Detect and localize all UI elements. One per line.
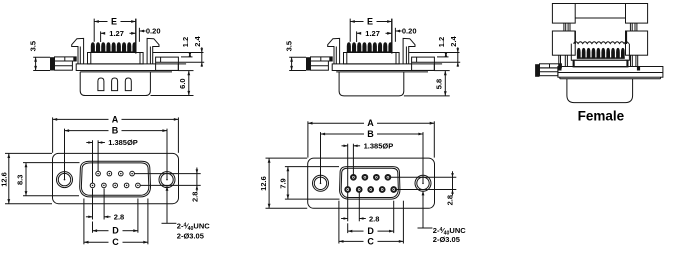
right screwlock block	[156, 57, 179, 70]
screw hole left female	[313, 175, 329, 191]
screw hole left	[57, 172, 73, 188]
svg-text:12.6: 12.6	[0, 172, 9, 187]
svg-text:E: E	[111, 16, 117, 26]
dimension 3.5	[33, 56, 50, 58]
insulator body	[88, 53, 144, 64]
dimension 0.20	[138, 28, 140, 42]
cap legs	[563, 23, 565, 31]
dimension D male	[92, 222, 94, 233]
svg-text:1.385ØP: 1.385ØP	[364, 142, 394, 151]
svg-text:B: B	[112, 126, 119, 136]
dimension 5.8	[434, 70, 449, 72]
strain relief cap right block	[626, 4, 648, 24]
svg-text:C: C	[112, 237, 119, 247]
cover wall inner edges	[574, 31, 576, 44]
dimension 8.3 male	[23, 162, 80, 164]
dimension A male	[52, 117, 54, 152]
dimension D female	[347, 223, 349, 233]
svg-text:2-Ø3.05: 2-Ø3.05	[433, 235, 460, 244]
cover side wall left	[552, 31, 575, 55]
screw hole right female	[415, 175, 431, 191]
contact organizer base	[573, 60, 628, 67]
female side view shell body	[339, 72, 404, 96]
thread callout female	[422, 191, 424, 228]
svg-text:8.3: 8.3	[16, 175, 25, 185]
dimension 12.6 male	[5, 152, 52, 154]
jack screw standoff (side view)	[50, 57, 55, 70]
thread callout male	[166, 186, 168, 223]
dimension 2.8 bottom female	[347, 193, 349, 222]
svg-text:2.8: 2.8	[114, 213, 124, 222]
female sockets top row	[351, 174, 357, 180]
dimension C male	[83, 199, 85, 245]
dimension 7.9 female	[285, 166, 339, 168]
svg-text:1.27: 1.27	[109, 29, 124, 38]
male D shell outline	[80, 161, 151, 197]
svg-text:5.8: 5.8	[435, 79, 444, 89]
male pins top row	[96, 171, 101, 176]
dimension 1.385 pitch male	[92, 140, 94, 183]
male side view rear shell body	[80, 72, 150, 96]
dimension 2.8 bottom male	[92, 189, 94, 220]
dimension A female	[307, 121, 309, 157]
svg-text:7.9: 7.9	[279, 178, 288, 188]
insulator housing	[571, 44, 629, 61]
svg-text:2.4: 2.4	[193, 35, 202, 46]
IDC teeth female view	[577, 48, 581, 59]
dimension 12.6 female	[266, 157, 308, 159]
svg-text:C: C	[367, 236, 374, 246]
female flange	[558, 67, 663, 78]
svg-text:A: A	[112, 114, 119, 124]
male front view body plate	[53, 153, 179, 203]
mounting flange (side view)	[76, 64, 178, 71]
svg-text:B: B	[367, 129, 374, 139]
svg-text:A: A	[367, 118, 374, 128]
extension lines right side	[153, 52, 204, 54]
screw hole right	[159, 172, 175, 188]
dimension 1.2	[189, 53, 191, 57]
svg-text:Female: Female	[578, 108, 625, 123]
strain relief cap middle bar	[575, 3, 625, 5]
ejector latch right	[147, 38, 159, 64]
dimension 2.4	[201, 47, 203, 67]
ejector latch left	[72, 38, 84, 64]
svg-text:3.5: 3.5	[29, 41, 38, 51]
dimension 1.385 pitch female	[347, 144, 349, 187]
svg-text:D: D	[112, 226, 119, 236]
svg-text:2.8: 2.8	[445, 195, 454, 205]
dimension 2.8 right female	[390, 176, 456, 178]
svg-text:6.0: 6.0	[178, 78, 187, 88]
female sockets bottom row	[345, 187, 351, 193]
IDC contact teeth	[91, 42, 95, 53]
ribbon cable scallops	[574, 42, 629, 44]
cover side wall right	[626, 31, 648, 55]
mounting feet	[558, 67, 561, 71]
strain relief cap left block	[552, 4, 575, 24]
svg-text:1.2: 1.2	[181, 37, 190, 47]
dimension C female	[338, 201, 340, 244]
dimension B female	[320, 132, 322, 183]
svg-text:2.8: 2.8	[190, 192, 199, 202]
female jack screw standoff	[535, 64, 539, 77]
female D shell body	[567, 79, 633, 103]
svg-text:0.20: 0.20	[146, 27, 161, 36]
dimension 1.27	[100, 31, 102, 42]
svg-text:D: D	[367, 226, 374, 236]
dimension 2.8 right male	[134, 173, 200, 175]
female D shell outline	[340, 167, 400, 200]
male pins bottom row	[90, 183, 95, 188]
legs to flange	[558, 55, 560, 66]
svg-text:1.385ØP: 1.385ØP	[108, 138, 138, 147]
dimension E	[93, 19, 95, 42]
dimension 6.0	[178, 70, 193, 72]
svg-text:12.6: 12.6	[259, 176, 268, 191]
svg-text:2.8: 2.8	[369, 214, 379, 223]
svg-text:2-Ø3.05: 2-Ø3.05	[177, 231, 204, 240]
pin slots	[98, 78, 104, 91]
female front view body plate	[308, 158, 435, 208]
dimension B male	[64, 129, 66, 180]
